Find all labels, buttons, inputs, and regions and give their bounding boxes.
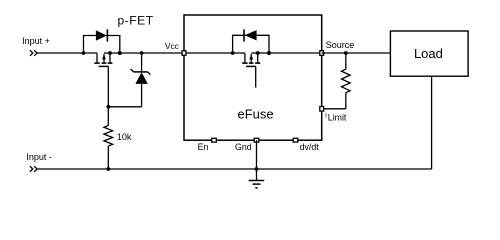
input terminal Input+	[30, 50, 37, 56]
wire: Vcc pin to internal FET source	[184, 52, 245, 54]
wire: Q1 body segment to Vcc pin	[104, 52, 184, 54]
resistor R1 10k	[104, 107, 113, 169]
svg-text:I: I	[325, 113, 327, 120]
wire: Input- rail	[38, 168, 432, 170]
pin ILimit	[320, 107, 324, 112]
wire: internal FET body/drain to Source pin	[251, 52, 322, 54]
junction: R1 to Input- rail	[106, 167, 110, 171]
svg-text:Input +: Input +	[22, 36, 50, 46]
svg-text:Vcc: Vcc	[165, 41, 179, 51]
junction on diode cathode	[118, 51, 122, 55]
ground	[249, 181, 265, 188]
transistor Q1 p-FET	[94, 53, 112, 66]
Load block	[390, 31, 468, 76]
pin Source	[320, 51, 324, 56]
eFuse block U1	[184, 15, 322, 140]
svg-text:Gnd: Gnd	[235, 142, 252, 152]
pin Gnd	[254, 138, 259, 142]
input terminal Input-	[30, 166, 37, 172]
wire: zener anode to gate node	[108, 106, 141, 108]
svg-text:En: En	[198, 142, 209, 152]
svg-text:Load: Load	[414, 46, 443, 61]
svg-text:p-FET: p-FET	[118, 13, 154, 27]
pin dv/dt	[293, 138, 298, 142]
pin En	[212, 138, 217, 142]
svg-text:eFuse: eFuse	[238, 106, 274, 121]
transistor Q2 body arrow	[249, 55, 253, 60]
wire: Input+ to p-FET source	[38, 52, 98, 54]
junction: diode cathode on Vcc side	[231, 51, 235, 55]
transistor Q1 body arrow	[102, 55, 106, 60]
zener diode D2	[131, 53, 151, 107]
svg-text:Input -: Input -	[26, 152, 52, 162]
wire: Load return to Input- rail	[431, 76, 433, 169]
resistor R2 (ILimit set)	[342, 53, 351, 109]
wire: Q1 gate lead down	[107, 66, 109, 107]
junction: Gnd to Input- rail	[255, 167, 259, 171]
junction: gate node	[106, 105, 110, 109]
svg-text:10k: 10k	[117, 132, 132, 142]
junction: current limit resistor tap	[344, 51, 348, 55]
body diode D1 of Q1	[84, 29, 120, 53]
pin Vcc	[182, 51, 186, 56]
body diode D3 of Q2	[233, 29, 269, 53]
transistor Q2 (internal pass FET)	[242, 53, 260, 88]
svg-text:Source: Source	[326, 40, 355, 50]
wire: R2 bottom to ILimit pin	[324, 108, 346, 110]
wire: Gnd pin to ground	[256, 140, 258, 180]
wire: Source pin to Load	[322, 52, 391, 54]
junction: Q2 drain	[256, 51, 260, 55]
junction on Q1 drain	[108, 51, 112, 55]
svg-text:dv/dt: dv/dt	[300, 142, 320, 152]
svg-text:Limit: Limit	[328, 113, 347, 123]
junction on Q1 source / diode anode	[82, 51, 86, 55]
junction: zener tap on Vcc wire	[140, 51, 144, 55]
junction: diode anode on Source side	[267, 51, 271, 55]
